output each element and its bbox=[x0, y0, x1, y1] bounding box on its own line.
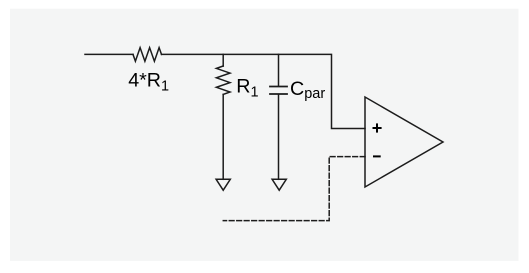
wire dashed feedback bbox=[223, 157, 365, 221]
op-amp plus pin mark bbox=[373, 123, 382, 132]
wire R1 to ground bbox=[222, 94, 224, 179]
resistor 4*R1 bbox=[133, 48, 162, 62]
capacitor Cpar bbox=[270, 87, 287, 95]
resistor R1 bbox=[216, 66, 230, 94]
ground (R1) bbox=[216, 179, 230, 190]
wire R1 top stub bbox=[222, 54, 224, 66]
op-amp U1 bbox=[365, 97, 443, 187]
ground (Cpar) bbox=[272, 179, 286, 190]
wire top net bbox=[162, 54, 366, 128]
op-amp minus pin mark bbox=[373, 155, 381, 157]
wire cap top stub bbox=[278, 54, 280, 85]
wire cap to ground bbox=[278, 95, 280, 179]
wire input left bbox=[85, 53, 133, 55]
